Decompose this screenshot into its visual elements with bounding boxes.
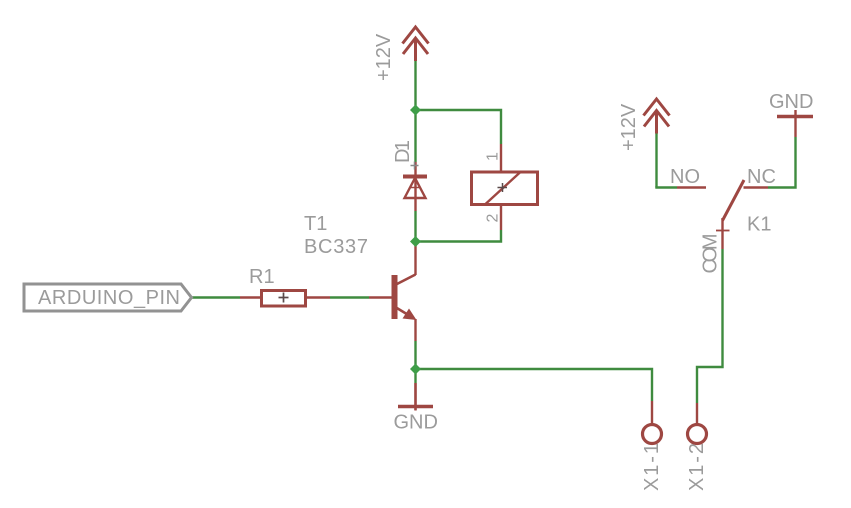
wire pin R1 right [306, 296, 330, 299]
svg-text:+12V: +12V [373, 33, 395, 81]
wire net COM to X1-2 [697, 249, 723, 403]
wire pin X1-2 [696, 403, 698, 424]
svg-text:+12V: +12V [618, 103, 640, 151]
wire relay coil bottom to junction [416, 230, 502, 242]
wire +12V rail vertical (green) [414, 60, 416, 162]
ground GND (bottom) [398, 383, 433, 411]
svg-text:GND: GND [394, 412, 438, 434]
wire pin X1-1 [651, 401, 653, 424]
wire +12V right stem green [655, 133, 657, 188]
wire pin NO contact [677, 186, 706, 189]
svg-text:GND: GND [769, 91, 813, 113]
supply +12V arrow (top) [403, 27, 429, 61]
wire branch to relay coil top [416, 110, 502, 144]
junction dot at collector/relay branch [410, 236, 421, 247]
wire pin K1 coil 1 [500, 144, 502, 171]
svg-text:X1-2: X1-2 [686, 443, 708, 491]
junction dot at emitter/GND branch [410, 364, 421, 375]
wire net to NO contact [655, 186, 677, 188]
wire net R1 to T1 base [330, 296, 369, 298]
ground GND (top right) [777, 110, 813, 137]
pad X1-1 [643, 425, 662, 444]
svg-text:T1: T1 [304, 213, 327, 235]
wire GND stem (red) [414, 383, 416, 410]
wire pin NC contact [744, 186, 769, 189]
wire pin T1 base [369, 296, 393, 299]
svg-text:D1: D1 [392, 140, 414, 163]
relay coil K1 [472, 172, 538, 205]
wire net NC to GND [768, 137, 796, 188]
resistor R1 [262, 291, 306, 307]
svg-text:NO: NO [670, 166, 700, 188]
supply +12V arrow (right) [644, 99, 670, 134]
svg-text:X1-1: X1-1 [641, 443, 663, 491]
svg-text:ARDUINO_PIN: ARDUINO_PIN [38, 287, 180, 309]
transistor T1 [392, 275, 417, 321]
svg-text:R1: R1 [249, 266, 275, 288]
svg-text:COM: COM [700, 234, 722, 274]
junction dot at +12V/relay branch [410, 105, 421, 116]
wire net ARDUINO_PIN to R1 [192, 296, 240, 298]
wire net emitter to X1-1 [416, 369, 653, 401]
svg-text:NC: NC [747, 166, 776, 188]
svg-text:2: 2 [485, 214, 502, 223]
flag ARDUINO_PIN [24, 284, 192, 311]
diode D1 [403, 162, 427, 199]
wire pin T1 collector [414, 242, 416, 275]
wire net D1 anode to junction [414, 211, 416, 242]
pad X1-2 [688, 425, 707, 444]
wire pin K1 coil 2 [500, 204, 502, 230]
svg-text:1: 1 [485, 152, 502, 161]
wire pin R1 left [240, 296, 261, 299]
wire emitter to GND junction [414, 341, 416, 370]
wire pin D1 cathode [414, 162, 416, 211]
svg-text:K1: K1 [747, 214, 771, 236]
svg-text:BC337: BC337 [304, 236, 368, 258]
wire junction to GND (green) [414, 370, 416, 383]
wire pin T1 emitter [414, 319, 416, 341]
relay contact lever K1 [716, 180, 744, 249]
